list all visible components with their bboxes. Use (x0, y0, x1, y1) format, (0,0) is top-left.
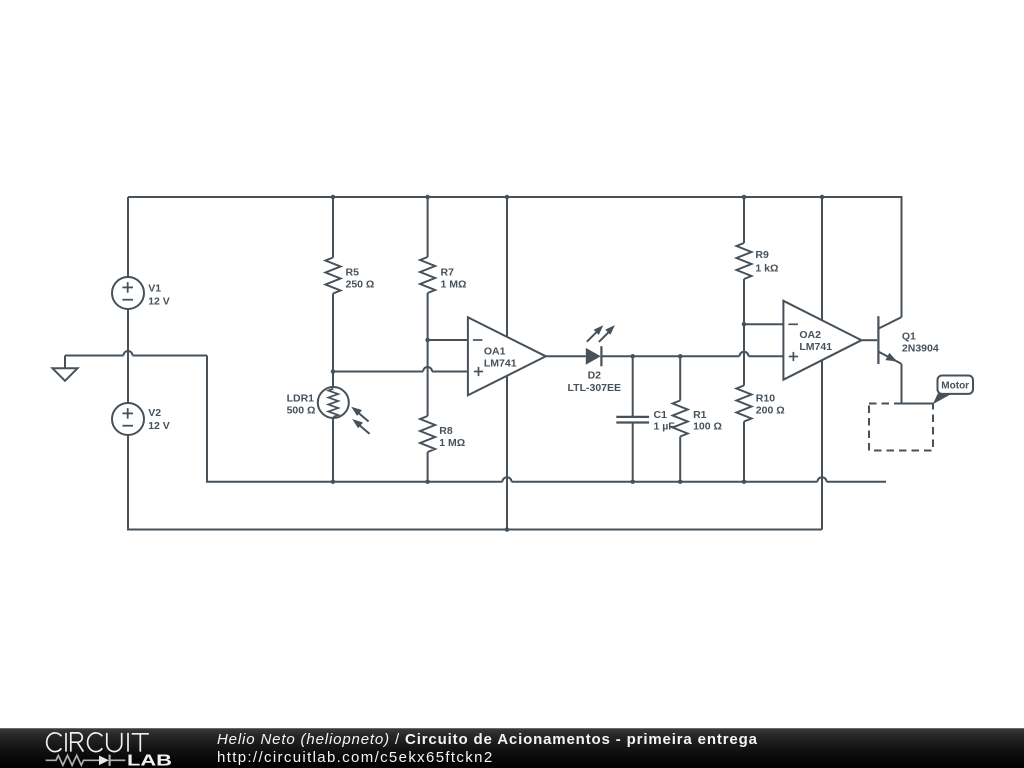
resistor R9 (743, 197, 745, 243)
photoresistor LDR1 (332, 372, 334, 388)
svg-text:2N3904: 2N3904 (902, 343, 939, 355)
svg-text:LM741: LM741 (799, 341, 832, 353)
svg-text:100 Ω: 100 Ω (693, 421, 722, 433)
bottom bar (0, 728, 1024, 768)
wire V1-V2 link (127, 309, 129, 403)
svg-text:R9: R9 (755, 249, 769, 261)
wire top rail (128, 197, 902, 317)
svg-text:R10: R10 (756, 393, 775, 405)
resistor R8 (420, 416, 435, 452)
wire OA2 minus input (744, 323, 783, 325)
svg-text:Q1: Q1 (902, 331, 916, 343)
labels (148, 249, 969, 449)
wire D2 output with hop at 744 (601, 355, 739, 357)
wire OA2 output (862, 339, 878, 341)
motor dashed box (869, 404, 933, 451)
wire OA1 minus input (428, 339, 468, 341)
resistor R1 (679, 356, 681, 400)
wire 0V rail right end (827, 481, 887, 483)
wire OA1 plus input with hop (333, 371, 423, 373)
svg-text:12 V: 12 V (148, 295, 170, 307)
LDR1 light arrows (358, 413, 370, 434)
svg-text:500 Ω: 500 Ω (287, 404, 316, 416)
svg-text:OA1: OA1 (484, 345, 506, 357)
svg-text:LM741: LM741 (484, 358, 517, 370)
svg-text:V1: V1 (148, 282, 161, 294)
svg-text:1 kΩ: 1 kΩ (755, 262, 778, 274)
wire Q1 emitter to motor (902, 364, 934, 404)
svg-text:LAB: LAB (127, 752, 172, 768)
capacitor C1 (632, 356, 634, 416)
svg-text:R1: R1 (693, 409, 707, 421)
svg-text:LTL-307EE: LTL-307EE (568, 382, 621, 394)
wire mid vertical x=507 (506, 197, 508, 530)
svg-text:V2: V2 (148, 407, 161, 419)
resistor R5 (332, 197, 334, 258)
wire OA1 output (546, 355, 586, 357)
svg-text:Motor: Motor (941, 381, 969, 392)
svg-text:1 µF: 1 µF (654, 421, 676, 433)
LED D2 (586, 348, 601, 365)
svg-text:D2: D2 (588, 370, 602, 382)
wire ground drop to 0V rail (207, 356, 503, 482)
wire V2 bottom to bottom rail (128, 435, 822, 530)
ground (64, 356, 66, 369)
wire 0V rail hop at 507 (503, 477, 512, 482)
svg-text:250 Ω: 250 Ω (346, 279, 375, 291)
svg-text:R8: R8 (439, 425, 453, 437)
resistor R7 (427, 197, 429, 257)
wire 0V rail hop at 822 (818, 477, 827, 482)
op-amp OA2 (783, 301, 861, 380)
voltage source V1 (112, 277, 144, 309)
wire 0V rail middle (512, 481, 818, 483)
Motor callout (933, 394, 952, 405)
svg-text:12 V: 12 V (148, 420, 170, 432)
svg-text:C1: C1 (654, 409, 668, 421)
svg-text:1 MΩ: 1 MΩ (441, 279, 467, 291)
svg-text:R7: R7 (441, 267, 455, 279)
svg-text:LDR1: LDR1 (287, 392, 315, 404)
svg-text:200 Ω: 200 Ω (756, 405, 785, 417)
junction dots (331, 195, 825, 532)
resistor R10 (737, 386, 752, 422)
transistor Q1 (877, 316, 879, 364)
wire ground horizontal with hop (65, 355, 124, 357)
svg-text:OA2: OA2 (799, 329, 821, 341)
CircuitLab logo (47, 733, 149, 752)
svg-text:1 MΩ: 1 MΩ (439, 437, 465, 449)
svg-text:R5: R5 (346, 267, 360, 279)
op-amp OA1 (468, 317, 546, 395)
voltage source V2 (112, 403, 144, 435)
wire right vertical x=822 (821, 197, 823, 530)
wire V1 top lead (127, 197, 129, 277)
